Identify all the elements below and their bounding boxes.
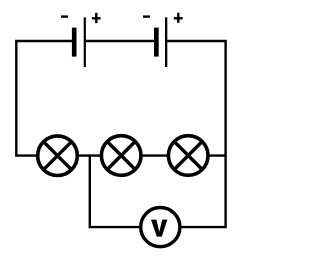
lamp L2 (101, 136, 141, 176)
wire: lamp L2 to lamp L3 (142, 154, 168, 156)
battery B1 positive plate (long thin) (84, 17, 86, 67)
battery B2 label - (143, 15, 150, 17)
voltmeter V1 (141, 208, 180, 247)
battery B2 positive plate (long thin) (165, 17, 167, 67)
wire: lamp L3 to right vertical (209, 154, 226, 156)
wire: right loop (top-right horizontal, right vertical, bottom to voltmeter) (166, 41, 226, 227)
battery B2 negative plate (short thick) (154, 28, 159, 57)
wire: left loop (top-left horizontal, left vertical, into lamp L1) (16, 41, 73, 156)
lamp L3 (168, 136, 208, 176)
wire: lamp L1 to lamp L2 (78, 154, 101, 156)
lamp L1 (38, 136, 78, 176)
wire: voltmeter tap (junction between L1 and L2 down and right to voltmeter) (90, 156, 140, 228)
battery B1 negative plate (short thick) (72, 28, 77, 57)
battery B1 label - (61, 15, 68, 17)
battery B1 label + (92, 13, 101, 23)
battery B2 label + (174, 13, 183, 23)
wire: between battery B1 and battery B2 (84, 40, 156, 42)
